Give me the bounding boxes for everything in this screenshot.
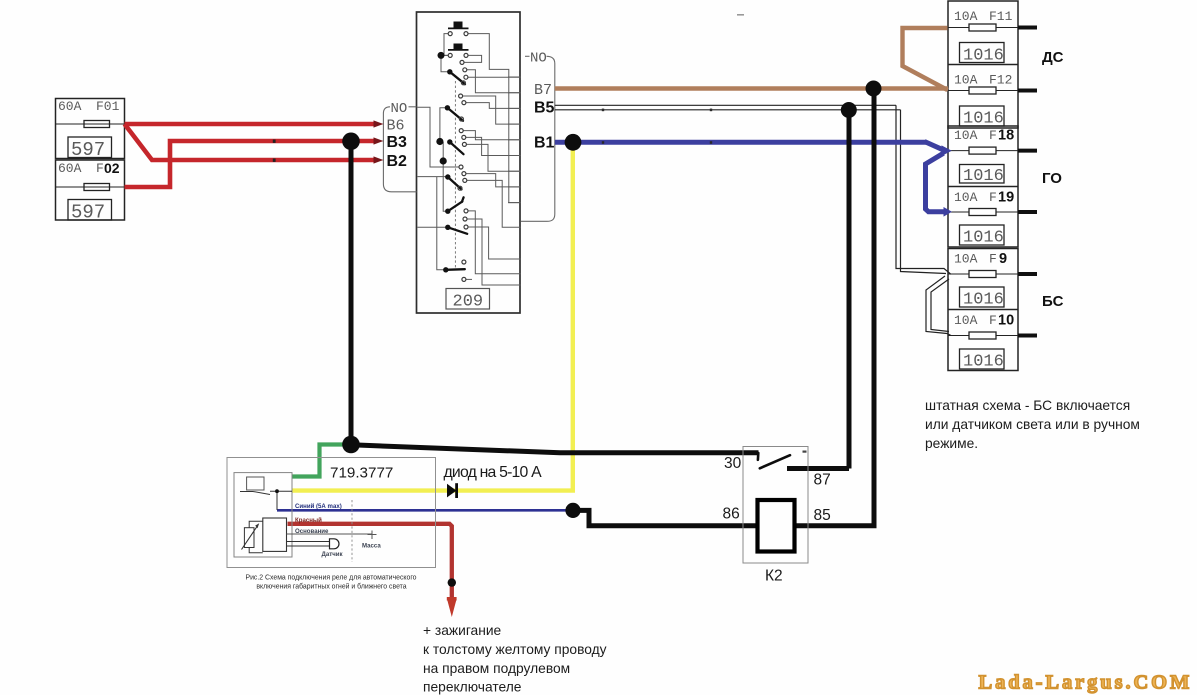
svg-text:B2: B2 — [387, 153, 408, 170]
svg-text:9: 9 — [999, 251, 1007, 267]
svg-text:F11: F11 — [989, 9, 1013, 24]
svg-text:переключателе: переключателе — [423, 679, 522, 694]
svg-text:87: 87 — [814, 472, 831, 489]
svg-text:597: 597 — [71, 202, 105, 224]
svg-text:F: F — [989, 190, 997, 205]
svg-text:1016: 1016 — [963, 47, 1004, 66]
svg-text:F12: F12 — [989, 73, 1012, 88]
svg-text:режиме.: режиме. — [925, 436, 978, 451]
svg-text:Масса: Масса — [362, 543, 381, 550]
svg-text:B3: B3 — [387, 134, 408, 151]
svg-text:штатная схема - БС включается: штатная схема - БС включается — [925, 398, 1130, 413]
svg-text:F: F — [989, 128, 997, 143]
svg-text:19: 19 — [998, 190, 1014, 206]
svg-text:+ зажигание: + зажигание — [423, 623, 502, 638]
svg-text:597: 597 — [71, 139, 105, 161]
svg-text:10: 10 — [998, 313, 1014, 329]
svg-text:диод на 5-10 А: диод на 5-10 А — [444, 464, 543, 481]
svg-text:86: 86 — [723, 506, 740, 523]
svg-text:Красный: Красный — [295, 517, 322, 524]
svg-text:719.3777: 719.3777 — [330, 465, 393, 482]
svg-text:60A: 60A — [58, 99, 82, 114]
svg-text:или датчиком света или в ручно: или датчиком света или в ручном — [925, 417, 1140, 432]
svg-text:10A: 10A — [954, 252, 978, 267]
svg-text:F: F — [989, 313, 997, 328]
svg-text:1016: 1016 — [963, 291, 1004, 310]
svg-text:10A: 10A — [954, 313, 978, 328]
svg-text:Основание: Основание — [295, 528, 329, 535]
svg-text:B6: B6 — [387, 118, 405, 135]
svg-text:к толстому желтому проводу: к толстому желтому проводу — [423, 642, 607, 657]
svg-text:на правом подрулевом: на правом подрулевом — [423, 661, 570, 676]
svg-text:10A: 10A — [954, 128, 978, 143]
svg-text:B5: B5 — [534, 100, 555, 117]
svg-text:ГО: ГО — [1042, 170, 1062, 187]
svg-text:209: 209 — [453, 293, 484, 312]
svg-text:10A: 10A — [954, 9, 978, 24]
svg-text:F: F — [96, 161, 104, 176]
svg-text:85: 85 — [814, 507, 831, 524]
svg-text:1016: 1016 — [963, 353, 1004, 372]
svg-text:ДС: ДС — [1042, 49, 1064, 66]
svg-text:Синий (5А max): Синий (5А max) — [295, 503, 342, 510]
svg-text:БС: БС — [1042, 293, 1064, 310]
svg-text:02: 02 — [104, 160, 120, 176]
svg-text:B7: B7 — [534, 82, 552, 99]
svg-text:1016: 1016 — [963, 167, 1004, 186]
svg-text:B1: B1 — [534, 135, 555, 152]
svg-text:NO: NO — [391, 101, 408, 117]
svg-text:F: F — [989, 252, 997, 267]
svg-text:Датчик: Датчик — [322, 551, 344, 558]
svg-text:включения габаритных огней и б: включения габаритных огней и ближнего св… — [256, 582, 406, 590]
svg-text:NO: NO — [530, 51, 547, 67]
svg-text:18: 18 — [998, 128, 1014, 144]
svg-text:1016: 1016 — [963, 110, 1004, 129]
svg-text:К2: К2 — [765, 568, 783, 585]
svg-text:10A: 10A — [954, 73, 978, 88]
svg-text:30: 30 — [724, 455, 742, 472]
svg-text:10A: 10A — [954, 190, 978, 205]
svg-text:Рис.2 Схема подключения реле д: Рис.2 Схема подключения реле для автомат… — [245, 575, 416, 582]
svg-text:Lada-Largus.COM: Lada-Largus.COM — [979, 672, 1193, 694]
svg-text:F01: F01 — [96, 99, 120, 114]
svg-text:60A: 60A — [58, 161, 82, 176]
svg-text:1016: 1016 — [963, 229, 1004, 248]
